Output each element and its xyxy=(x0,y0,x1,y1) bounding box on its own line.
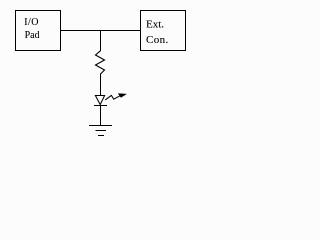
Ext. Con. box xyxy=(141,11,186,51)
wire: resistor to LED anode xyxy=(100,74,102,96)
svg-text:Con.: Con. xyxy=(146,34,169,46)
LED D1 cathode bar xyxy=(94,105,107,107)
svg-text:I/O: I/O xyxy=(24,17,39,28)
LED light-emission arrow xyxy=(105,94,126,100)
wire: I/O Pad to Ext. Con. xyxy=(61,30,141,32)
I/O Pad box xyxy=(16,11,61,51)
svg-text:Pad: Pad xyxy=(25,30,40,41)
wire: junction node to resistor top xyxy=(100,31,102,52)
wire: LED cathode to ground xyxy=(100,106,102,126)
svg-text:Ext.: Ext. xyxy=(146,19,164,31)
ground xyxy=(89,126,112,136)
LED D1 triangle xyxy=(95,96,104,105)
resistor R1 xyxy=(96,51,105,74)
